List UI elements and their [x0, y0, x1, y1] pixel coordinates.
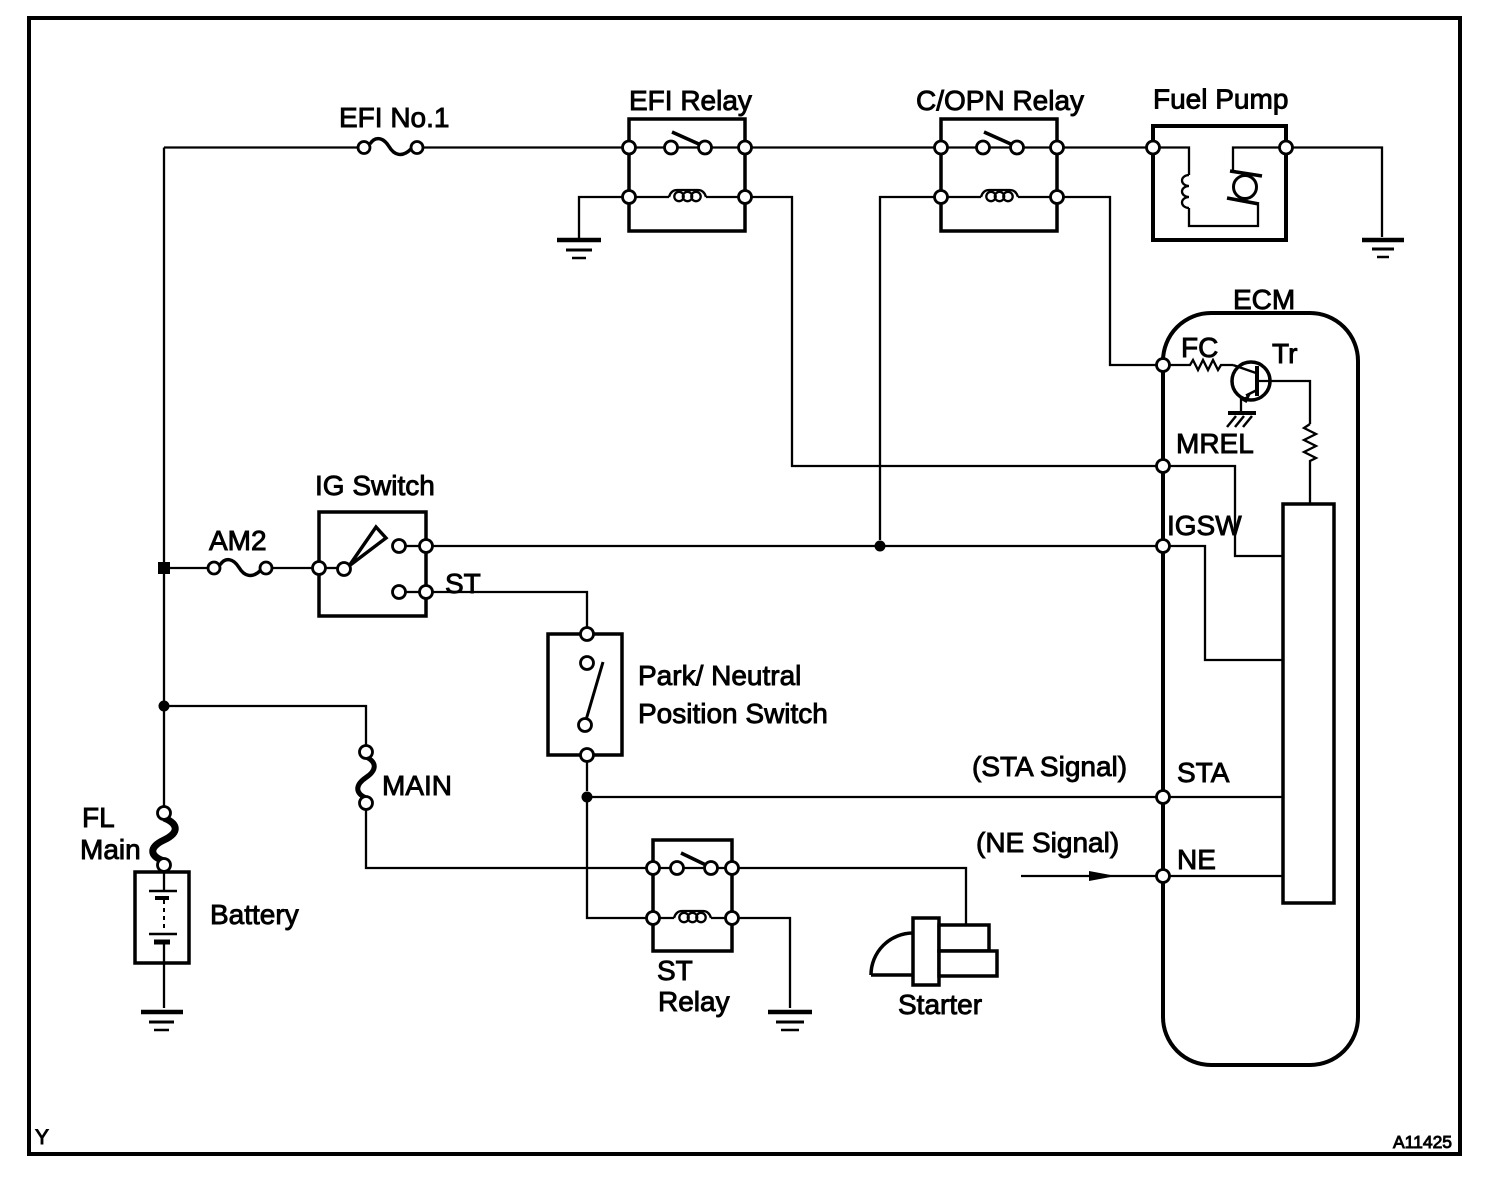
relay EFI switch nodes	[623, 141, 752, 154]
starter terminals	[939, 925, 997, 976]
wire EFI relay to C/OPN relay	[751, 146, 935, 148]
wire IGSW to IC	[1169, 546, 1283, 660]
svg-text:IGSW: IGSW	[1167, 510, 1242, 541]
wire MREL to IC	[1169, 466, 1283, 556]
wire EFI relay coil to ground	[579, 197, 623, 238]
ST relay box	[653, 840, 732, 951]
label ST Relay	[657, 955, 730, 1017]
node MREL	[1157, 460, 1170, 473]
svg-text:Battery: Battery	[210, 899, 299, 930]
park/neutral position switch box	[548, 634, 622, 755]
park/neutral contacts	[579, 628, 594, 762]
label Park/ Neutral Position Switch	[638, 660, 828, 729]
resistor FC	[1169, 360, 1233, 370]
resistor collector pull	[1304, 424, 1316, 504]
svg-text:Fuel Pump: Fuel Pump	[1153, 84, 1288, 115]
wire MAIN to ST relay	[366, 809, 647, 868]
wire left bus AM2 to FL Main	[163, 574, 165, 807]
label FC	[1181, 332, 1218, 363]
svg-text:FL: FL	[82, 802, 115, 833]
fusible link MAIN	[358, 746, 375, 810]
label NE	[1177, 844, 1216, 875]
svg-text:MREL: MREL	[1176, 428, 1254, 459]
ECM outline	[1163, 313, 1358, 1065]
svg-text:Relay: Relay	[658, 986, 730, 1017]
label Tr	[1272, 338, 1297, 369]
fusible link FL Main	[153, 807, 176, 872]
ground right of fuel pump	[1362, 240, 1404, 257]
battery cells	[149, 872, 177, 1008]
wire ST relay switch to starter	[738, 868, 966, 927]
wire MAIN branch	[164, 706, 366, 746]
junction left bus MAIN tap	[159, 701, 170, 712]
node IGSW	[1157, 540, 1170, 553]
label A11425	[1393, 1132, 1452, 1152]
label EFI Relay	[629, 85, 752, 116]
ST relay coil	[647, 911, 739, 925]
wire C/OPN coil to FC node	[1063, 197, 1157, 365]
wire C/OPN relay to fuel pump	[1063, 146, 1147, 148]
svg-text:ST: ST	[657, 955, 693, 986]
ground below battery	[141, 1012, 183, 1030]
wire IGSW line from IG switch to ECM	[432, 545, 1157, 547]
svg-text:C/OPN Relay: C/OPN Relay	[916, 85, 1084, 116]
node NE	[1157, 870, 1170, 883]
IC block	[1283, 504, 1334, 903]
ST relay lever	[681, 853, 708, 866]
svg-text:NE: NE	[1177, 844, 1216, 875]
relay EFI coil	[623, 190, 752, 204]
ground below EFI relay	[557, 240, 601, 258]
svg-text:IG Switch: IG Switch	[315, 470, 435, 501]
label AM2	[209, 525, 267, 556]
junction C/OPN coil on IGSW line	[875, 541, 886, 552]
svg-text:ECM: ECM	[1233, 284, 1295, 315]
wire ST relay coil to ground	[738, 918, 790, 1008]
wire EFI relay coil to MREL node	[751, 197, 1157, 466]
svg-text:EFI Relay: EFI Relay	[629, 85, 752, 116]
battery box	[135, 872, 189, 963]
label MAIN	[382, 770, 452, 801]
svg-text:MAIN: MAIN	[382, 770, 452, 801]
wire Tr collector	[1257, 381, 1310, 424]
fuse AM2	[208, 560, 272, 576]
label IGSW	[1167, 510, 1242, 541]
chassis ground of Tr emitter	[1227, 413, 1256, 427]
fuel pump motor	[1227, 148, 1280, 205]
label C/OPN Relay	[916, 85, 1084, 116]
label ST	[445, 568, 481, 599]
svg-text:Main: Main	[80, 834, 141, 865]
svg-text:Position Switch: Position Switch	[638, 698, 828, 729]
wire C/OPN coil to IGSW line	[880, 197, 935, 540]
fuel pump box	[1153, 126, 1286, 240]
wire STA junction down to ST relay coil	[587, 797, 647, 918]
node STA	[1157, 791, 1170, 804]
svg-text:Starter: Starter	[898, 989, 982, 1020]
starter motor body	[871, 933, 913, 975]
label (NE Signal)	[976, 827, 1119, 858]
IG switch contacts	[313, 540, 433, 599]
IG switch lever	[349, 527, 386, 566]
label MREL	[1176, 428, 1254, 459]
label IG Switch	[315, 470, 435, 501]
label ECM	[1233, 284, 1295, 315]
wire top bus from left corner to EFI No.1 fuse	[164, 146, 358, 148]
svg-text:Park/ Neutral: Park/ Neutral	[638, 660, 801, 691]
relay C/OPN coil	[935, 190, 1064, 204]
node FC	[1157, 359, 1170, 372]
wire fuel pump to ground	[1292, 148, 1382, 238]
svg-text:Tr: Tr	[1272, 338, 1297, 369]
relay C/OPN switch nodes	[935, 141, 1064, 154]
relay EFI: box	[629, 119, 745, 231]
label Y	[35, 1126, 49, 1149]
relay C/OPN contact lever	[984, 132, 1013, 145]
fuse EFI No.1	[358, 139, 423, 155]
fuel pump nodes	[1147, 141, 1293, 154]
park/neutral lever	[586, 662, 603, 720]
ST relay switch nodes	[647, 862, 739, 875]
relay C/OPN: box	[941, 119, 1057, 231]
svg-text:AM2: AM2	[209, 525, 267, 556]
label (STA Signal)	[972, 751, 1127, 782]
ground below ST relay	[768, 1012, 812, 1030]
svg-text:(STA Signal): (STA Signal)	[972, 751, 1127, 782]
label EFI No.1	[339, 102, 449, 133]
svg-text:(NE Signal): (NE Signal)	[976, 827, 1119, 858]
junction STA	[582, 792, 593, 803]
wire AM2 fuse to IG switch	[272, 567, 313, 569]
label STA	[1177, 757, 1230, 788]
junction AM2 tap	[158, 562, 170, 574]
wire fuse to EFI relay	[423, 146, 623, 148]
svg-text:A11425: A11425	[1393, 1132, 1452, 1152]
svg-text:ST: ST	[445, 568, 481, 599]
wire STA to IC	[1169, 796, 1283, 798]
label Fuel Pump	[1153, 84, 1288, 115]
wire NE signal arrow	[1021, 871, 1157, 881]
label FL	[82, 802, 115, 833]
relay EFI contact lever	[672, 132, 701, 145]
transistor Tr	[1232, 362, 1270, 412]
svg-text:STA: STA	[1177, 757, 1230, 788]
label Battery	[210, 899, 299, 930]
svg-text:Y: Y	[35, 1126, 49, 1149]
wire left bus vertical	[163, 148, 165, 563]
wire AM2 tap to fuse	[170, 567, 208, 569]
starter solenoid	[913, 918, 939, 985]
wire STA signal line	[587, 796, 1157, 798]
wire park/neutral to STA junction	[586, 761, 588, 791]
label Main	[80, 834, 141, 865]
svg-text:EFI No.1: EFI No.1	[339, 102, 449, 133]
IG switch box	[319, 512, 426, 616]
wire ST from IG switch to park/neutral switch	[432, 592, 587, 628]
fuel pump coil	[1159, 148, 1258, 227]
wire NE to IC	[1169, 875, 1283, 877]
label Starter	[898, 989, 982, 1020]
